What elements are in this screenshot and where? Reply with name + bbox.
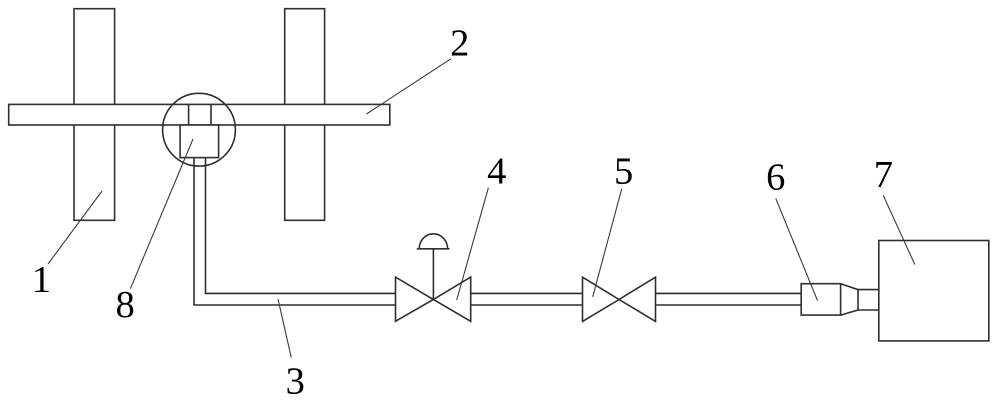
leader line to label 8	[130, 139, 193, 289]
valve 5 left triangle	[583, 277, 620, 321]
nozzle 6 body rect	[801, 284, 840, 315]
nozzle 6 taper (trapezoid)	[841, 284, 858, 315]
pipe 3 (vertical run, outer wall + bottom wall of horizontal run)	[194, 158, 396, 305]
pipe between valve 4 and valve 5	[471, 293, 583, 305]
nozzle 6 outlet stub	[858, 290, 879, 310]
leader line to label 6	[776, 199, 818, 301]
fitting 8 body (wide rect below beam)	[180, 125, 219, 158]
svg-text:2: 2	[450, 23, 469, 65]
beam 2 (horizontal plate)	[9, 104, 390, 125]
svg-text:8: 8	[115, 284, 134, 326]
svg-text:3: 3	[286, 361, 305, 403]
detail circle around fitting 8	[163, 93, 236, 166]
svg-text:1: 1	[32, 259, 51, 301]
tank 7 (box)	[879, 241, 989, 341]
valve 4 left triangle	[396, 277, 434, 321]
leader line to label 5	[593, 189, 622, 297]
svg-text:7: 7	[874, 154, 893, 196]
svg-text:4: 4	[487, 151, 506, 193]
svg-text:6: 6	[766, 157, 785, 199]
svg-text:5: 5	[614, 151, 633, 193]
fitting 8 neck (small rect verticals inside circle)	[189, 104, 211, 125]
valve 5 right triangle	[619, 277, 656, 321]
pipe 3 (inner wall + top wall of horizontal run)	[206, 158, 396, 294]
valve 4 stem	[432, 249, 434, 300]
leader line to label 1	[48, 191, 102, 264]
support plate (left vertical bar, part of item 1)	[74, 9, 115, 221]
support plate (right vertical bar, part of item 1)	[285, 9, 325, 221]
valve 4 actuator dome	[417, 234, 450, 249]
leader line to label 3	[278, 299, 291, 358]
leader line to label 2	[367, 59, 452, 114]
leader line to label 7	[883, 195, 915, 264]
valve 4 right triangle	[433, 277, 470, 321]
leader line to label 4	[457, 188, 489, 300]
pipe between valve 5 and nozzle 6	[656, 293, 802, 305]
